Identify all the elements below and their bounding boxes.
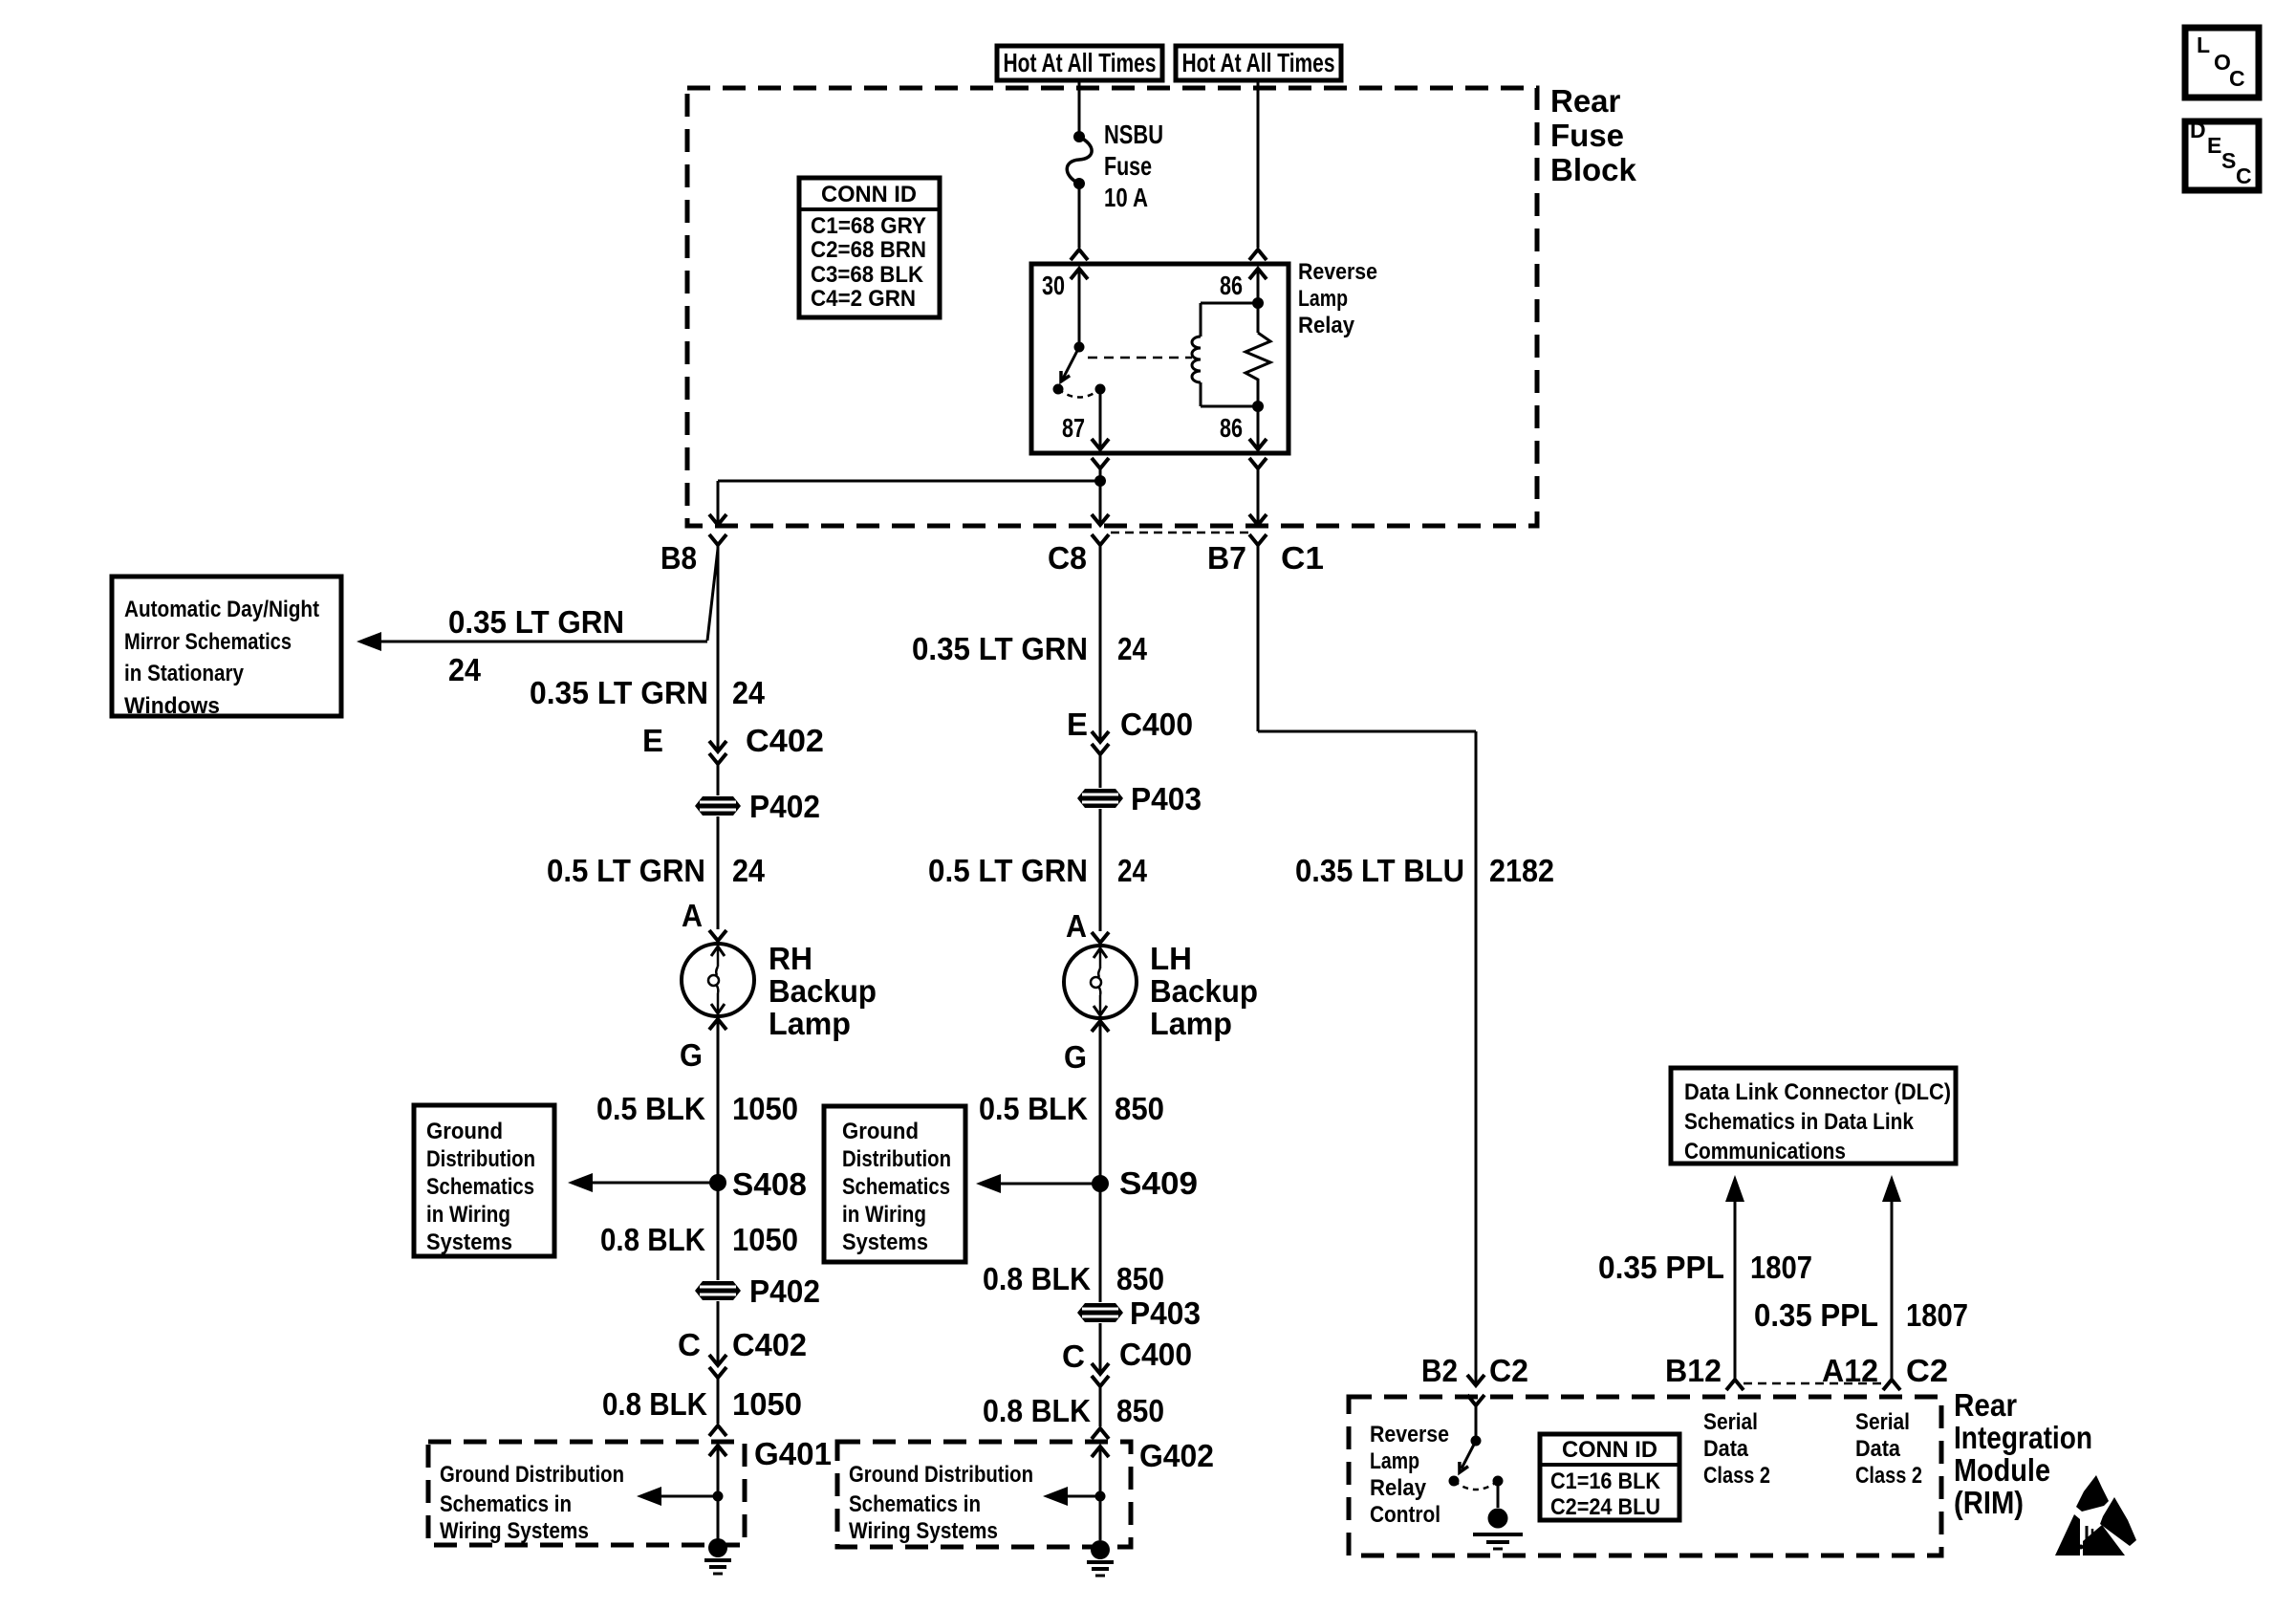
relay node bottom (86)	[1252, 401, 1264, 412]
wire: junction across to B8 drop	[718, 480, 1100, 483]
svg-text:G: G	[1064, 1039, 1087, 1075]
svg-text:Windows: Windows	[124, 693, 220, 719]
svg-text:Ground Distribution: Ground Distribution	[849, 1462, 1033, 1488]
svg-text:Hot At All Times: Hot At All Times	[1182, 48, 1335, 77]
svg-text:C3=68 BLK: C3=68 BLK	[811, 262, 924, 288]
svg-text:Schematics in: Schematics in	[849, 1491, 981, 1517]
pin B2 fork	[1467, 1395, 1484, 1405]
svg-text:B7: B7	[1207, 540, 1246, 576]
svg-text:Backup: Backup	[769, 973, 877, 1009]
splice P402 (upper)	[695, 796, 741, 816]
svg-text:0.35 LT BLU: 0.35 LT BLU	[1295, 853, 1464, 888]
svg-text:C2=24 BLU: C2=24 BLU	[1550, 1494, 1660, 1520]
wire: left feed from Hot At All Times to fuse	[1078, 80, 1081, 137]
svg-text:B2: B2	[1421, 1353, 1458, 1388]
wire: C400 to G402	[1099, 1386, 1102, 1426]
relay switch contact B (to pin 87)	[1095, 384, 1106, 395]
svg-text:Mirror Schematics: Mirror Schematics	[124, 629, 292, 655]
relay coil branch top wire	[1201, 302, 1258, 305]
svg-text:C: C	[1062, 1338, 1085, 1374]
svg-text:P402: P402	[749, 789, 820, 824]
splice P403 (lower)	[1077, 1303, 1123, 1322]
svg-text:Ground: Ground	[426, 1119, 503, 1144]
ground symbol G401	[708, 1538, 727, 1557]
power feed box: Hot At All Times (left)	[997, 46, 1162, 80]
svg-text:S: S	[2221, 148, 2236, 173]
wire: C402 to G401	[717, 1378, 720, 1424]
svg-text:C402: C402	[732, 1327, 807, 1362]
svg-text:Class 2: Class 2	[1855, 1463, 1922, 1489]
relay coil L	[1200, 303, 1202, 337]
relay switch pivot	[1074, 342, 1085, 353]
wire: branch diagonal from B8	[707, 549, 718, 641]
svg-text:C1=68 GRY: C1=68 GRY	[811, 213, 926, 239]
svg-text:D: D	[2190, 118, 2206, 142]
wire: S409 arrow to ground distribution	[1000, 1183, 1100, 1186]
connector fork at relay pin 86	[1249, 250, 1267, 260]
wire: C400 to P403	[1099, 754, 1102, 788]
wire: C402 to P402	[717, 764, 720, 795]
svg-text:B8: B8	[661, 540, 697, 576]
wire: branch to mirror schematics with arrow	[380, 641, 707, 643]
relay coil branch bottom wire	[1201, 405, 1258, 408]
svg-text:S408: S408	[732, 1166, 807, 1202]
svg-text:G402: G402	[1139, 1438, 1214, 1473]
wire: C8 down to C400	[1099, 545, 1102, 742]
relay node top (86)	[1252, 297, 1264, 309]
LOC reference box	[2185, 28, 2259, 98]
relay switch contact A	[1053, 384, 1064, 395]
lamp: LH Backup Lamp	[1064, 946, 1137, 1018]
svg-text:C1: C1	[1281, 540, 1324, 576]
svg-text:0.35 PPL: 0.35 PPL	[1598, 1250, 1724, 1285]
relay pin 86 bottom wire+arrow	[1257, 382, 1260, 406]
wire: junction down to C8	[1099, 481, 1102, 525]
fuse NSBU 10A	[1073, 131, 1085, 142]
DESC reference box	[2185, 121, 2259, 190]
pin C8 arrow at fuse block edge	[1092, 514, 1109, 525]
wire: relay 86 down to B7	[1257, 468, 1260, 525]
lamp: RH Backup Lamp	[682, 944, 754, 1016]
connector fork into G402	[1092, 1428, 1109, 1439]
svg-text:Communications: Communications	[1684, 1139, 1846, 1164]
svg-text:Distribution: Distribution	[842, 1146, 951, 1172]
svg-text:C402: C402	[746, 723, 824, 758]
wire: RIM B12 up to DLC with arrow	[1725, 1175, 1744, 1202]
svg-text:E: E	[2207, 133, 2221, 158]
pin C8 fork	[1092, 534, 1109, 545]
RIM switch contact A	[1449, 1476, 1460, 1487]
G401 pin arrow	[709, 1446, 726, 1456]
svg-text:E: E	[1067, 707, 1088, 742]
callout box: Ground Distribution Schematics (left)	[414, 1105, 554, 1256]
wire: S408 arrow to ground distribution	[592, 1182, 718, 1185]
svg-text:Fuse: Fuse	[1104, 151, 1152, 181]
svg-text:Systems: Systems	[426, 1229, 512, 1255]
svg-text:0.5 BLK: 0.5 BLK	[979, 1091, 1088, 1126]
callout box: Data Link Connector (DLC)	[1671, 1068, 1956, 1164]
svg-text:Automatic Day/Night: Automatic Day/Night	[124, 597, 319, 622]
svg-text:86: 86	[1220, 271, 1243, 300]
svg-text:Serial: Serial	[1703, 1409, 1758, 1435]
RIM ground symbol	[1488, 1509, 1508, 1529]
wire: S408 to P402 lower	[717, 1183, 720, 1280]
svg-text:E: E	[642, 723, 663, 758]
svg-text:Data: Data	[1703, 1436, 1749, 1462]
relay switch arm	[1063, 347, 1079, 379]
relay K: Reverse Lamp Relay box	[1031, 264, 1289, 453]
CONN ID table (RIM)	[1540, 1434, 1679, 1520]
RIM switch pivot	[1471, 1436, 1482, 1447]
svg-text:10 A: 10 A	[1104, 183, 1148, 212]
connector fork under relay pin 86	[1249, 458, 1267, 468]
svg-text:Schematics: Schematics	[842, 1174, 950, 1200]
power feed box: Hot At All Times (right)	[1176, 46, 1341, 80]
svg-text:CONN ID: CONN ID	[1562, 1437, 1657, 1463]
svg-text:24: 24	[1117, 631, 1148, 666]
svg-text:Wiring Systems: Wiring Systems	[849, 1518, 998, 1544]
wire: relay 87 down to junction	[1099, 468, 1102, 481]
svg-text:Ground: Ground	[842, 1119, 919, 1144]
wire: right feed from Hot At All Times to relay pin 86	[1257, 80, 1260, 248]
ground body G402 dashed box	[837, 1442, 1131, 1547]
callout box: Automatic Day/Night Mirror Schematics	[112, 577, 341, 716]
svg-text:Block: Block	[1550, 152, 1637, 187]
G402 junction	[1095, 1491, 1106, 1502]
svg-text:G401: G401	[754, 1436, 832, 1471]
ground symbol G402	[1091, 1540, 1110, 1559]
svg-text:Ground Distribution: Ground Distribution	[440, 1462, 624, 1488]
RIM switch arm	[1462, 1441, 1476, 1469]
svg-text:P403: P403	[1130, 1295, 1201, 1331]
svg-text:CONN ID: CONN ID	[821, 182, 917, 207]
svg-text:1807: 1807	[1750, 1250, 1812, 1285]
wire: lamp to S409	[1099, 1021, 1102, 1184]
svg-text:0.5 BLK: 0.5 BLK	[596, 1091, 705, 1126]
svg-text:0.35 PPL: 0.35 PPL	[1754, 1297, 1878, 1333]
svg-text:P403: P403	[1131, 781, 1202, 816]
svg-text:G: G	[680, 1037, 703, 1073]
RIM switch contact B	[1493, 1476, 1504, 1487]
svg-text:C8: C8	[1048, 540, 1087, 576]
pin B12 fork at RIM edge	[1726, 1380, 1744, 1390]
svg-text:P402: P402	[749, 1273, 820, 1309]
wire: P402 to C402 lower	[717, 1301, 720, 1365]
svg-text:87: 87	[1062, 413, 1085, 443]
svg-text:Rear: Rear	[1954, 1387, 2017, 1423]
svg-text:850: 850	[1116, 1261, 1164, 1296]
svg-text:C2=68 BRN: C2=68 BRN	[811, 237, 926, 263]
svg-text:30: 30	[1042, 271, 1065, 300]
connector fork under relay pin 87	[1092, 458, 1109, 468]
svg-text:in Stationary: in Stationary	[124, 661, 245, 686]
connector fork at relay pin 30	[1071, 250, 1088, 260]
callout box: Ground Distribution Schematics (middle)	[824, 1106, 965, 1262]
svg-text:1050: 1050	[732, 1386, 802, 1422]
svg-text:0.5 LT GRN: 0.5 LT GRN	[547, 853, 705, 888]
wire: S409 to P403 lower	[1099, 1184, 1102, 1302]
svg-text:24: 24	[732, 675, 766, 710]
svg-text:Lamp: Lamp	[769, 1006, 851, 1041]
svg-text:0.35 LT GRN: 0.35 LT GRN	[912, 631, 1088, 666]
RIM driver switch: wire from B2 fork	[1475, 1405, 1478, 1441]
svg-text:Backup: Backup	[1150, 973, 1258, 1009]
svg-text:Control: Control	[1370, 1502, 1440, 1528]
wire: fuse to relay pin 30	[1078, 184, 1081, 248]
svg-text:1050: 1050	[732, 1222, 798, 1257]
RIM internal ground wire	[1497, 1481, 1500, 1508]
svg-text:A: A	[1066, 908, 1087, 944]
svg-text:C400: C400	[1119, 1337, 1192, 1372]
connector id dashed line C8-B7	[1111, 532, 1248, 534]
svg-text:24: 24	[448, 652, 482, 687]
svg-text:in Wiring: in Wiring	[842, 1202, 926, 1228]
svg-text:RH: RH	[769, 941, 812, 976]
svg-text:Lamp: Lamp	[1298, 286, 1348, 312]
wire: P403 to C400 lower	[1099, 1323, 1102, 1374]
connector fork into G401	[709, 1425, 726, 1436]
wire: P402 to lamp	[717, 816, 720, 903]
svg-text:in Wiring: in Wiring	[426, 1202, 510, 1228]
wire: B8 drop	[717, 481, 720, 525]
svg-text:Lamp: Lamp	[1150, 1006, 1232, 1041]
connector id dashed line B12-A12	[1744, 1382, 1883, 1385]
svg-text:Integration: Integration	[1954, 1420, 2092, 1455]
ESD sensitive device symbol	[2055, 1475, 2136, 1556]
svg-text:Schematics in Data Link: Schematics in Data Link	[1684, 1109, 1915, 1135]
svg-text:A: A	[682, 898, 703, 933]
svg-text:L: L	[2197, 33, 2210, 57]
svg-text:Relay: Relay	[1370, 1475, 1427, 1501]
svg-text:Schematics: Schematics	[426, 1174, 534, 1200]
splice S409	[1092, 1175, 1109, 1192]
RIM switch dashed throw arc	[1454, 1481, 1498, 1490]
svg-text:0.35 LT GRN: 0.35 LT GRN	[530, 675, 708, 710]
ground body G401 dashed box	[428, 1442, 745, 1545]
svg-text:S409: S409	[1119, 1165, 1198, 1201]
svg-text:C: C	[2229, 66, 2245, 91]
relay resistor (parallel with coil)	[1257, 303, 1260, 333]
svg-text:Module: Module	[1954, 1452, 2050, 1488]
svg-text:C2: C2	[1489, 1353, 1528, 1388]
junction node (87 output)	[1094, 475, 1106, 487]
svg-text:C400: C400	[1120, 707, 1193, 742]
pin B8 arrow at fuse block edge	[709, 514, 726, 525]
svg-text:Class 2: Class 2	[1703, 1463, 1770, 1489]
relay pin 87 wire+arrow	[1099, 389, 1102, 449]
pin B2 arrow at RIM edge	[1467, 1375, 1484, 1385]
svg-text:C4=2 GRN: C4=2 GRN	[811, 286, 916, 312]
svg-text:Reverse: Reverse	[1298, 259, 1377, 285]
wire: RIM A12/C2 up to DLC with arrow	[1882, 1175, 1901, 1202]
wire: G402 to ground	[1099, 1496, 1102, 1540]
pin A12 fork at RIM edge	[1883, 1380, 1900, 1390]
svg-text:Lamp: Lamp	[1370, 1448, 1419, 1474]
svg-text:1050: 1050	[732, 1091, 798, 1126]
svg-text:Schematics in: Schematics in	[440, 1491, 572, 1517]
CONN ID table (rear fuse block)	[799, 178, 940, 317]
svg-text:0.8 BLK: 0.8 BLK	[983, 1261, 1091, 1296]
svg-text:0.5 LT GRN: 0.5 LT GRN	[928, 853, 1088, 888]
G401 arrow to ground distribution	[660, 1495, 718, 1498]
svg-text:C: C	[678, 1327, 701, 1362]
svg-text:2182: 2182	[1489, 853, 1554, 888]
svg-text:0.8 BLK: 0.8 BLK	[600, 1222, 705, 1257]
Rear Integration Module dashed box	[1349, 1397, 1941, 1556]
svg-text:0.8 BLK: 0.8 BLK	[983, 1393, 1091, 1428]
splice P402 (lower)	[695, 1281, 741, 1300]
svg-text:Serial: Serial	[1855, 1409, 1910, 1435]
Rear Fuse Block dashed boundary	[687, 88, 1537, 526]
svg-text:LH: LH	[1150, 941, 1192, 976]
svg-text:Fuse: Fuse	[1550, 118, 1624, 153]
svg-text:24: 24	[732, 853, 766, 888]
wire: P403 to lamp	[1099, 809, 1102, 904]
svg-text:Rear: Rear	[1550, 83, 1621, 119]
svg-text:0.35 LT GRN: 0.35 LT GRN	[448, 604, 624, 640]
svg-text:86: 86	[1220, 413, 1243, 443]
svg-text:(RIM): (RIM)	[1954, 1485, 2024, 1520]
svg-text:1807: 1807	[1906, 1297, 1968, 1333]
wire: B7 down, over and down to RIM B2	[1257, 545, 1260, 731]
relay pin 86 top arrow	[1249, 269, 1267, 279]
splice S408	[709, 1174, 726, 1191]
svg-text:NSBU: NSBU	[1104, 120, 1163, 149]
G402 pin arrow	[1092, 1447, 1109, 1457]
svg-text:Hot At All Times: Hot At All Times	[1004, 48, 1157, 77]
svg-text:C: C	[2236, 163, 2252, 188]
svg-text:Reverse: Reverse	[1370, 1422, 1449, 1447]
relay linkage dashed line to coil	[1088, 357, 1192, 359]
svg-text:Relay: Relay	[1298, 313, 1355, 338]
relay pin 30 arrow	[1071, 269, 1088, 279]
wire: B8 down to C402	[717, 545, 720, 751]
pin B7 fork	[1249, 534, 1267, 545]
svg-text:850: 850	[1115, 1091, 1164, 1126]
svg-text:Distribution: Distribution	[426, 1146, 535, 1172]
G402 arrow to ground distribution	[1066, 1495, 1100, 1498]
svg-text:Data Link Connector (DLC): Data Link Connector (DLC)	[1684, 1079, 1951, 1105]
svg-text:Systems: Systems	[842, 1229, 928, 1255]
G401 junction	[713, 1491, 724, 1502]
svg-text:C1=16 BLK: C1=16 BLK	[1550, 1469, 1661, 1494]
svg-text:0.8 BLK: 0.8 BLK	[602, 1386, 707, 1422]
svg-text:850: 850	[1116, 1393, 1164, 1428]
pin B7 arrow at fuse block edge	[1249, 514, 1267, 525]
svg-text:24: 24	[1117, 853, 1148, 888]
splice P403 (upper)	[1077, 789, 1123, 808]
pin B8 fork	[709, 534, 726, 545]
wire: lamp to S408	[717, 1019, 720, 1183]
svg-text:C2: C2	[1906, 1353, 1948, 1388]
svg-text:B12: B12	[1665, 1353, 1722, 1388]
wire: G401 to ground	[717, 1496, 720, 1539]
svg-text:Wiring Systems: Wiring Systems	[440, 1518, 589, 1544]
relay switch dashed throw arc	[1058, 389, 1100, 398]
svg-text:Data: Data	[1855, 1436, 1901, 1462]
